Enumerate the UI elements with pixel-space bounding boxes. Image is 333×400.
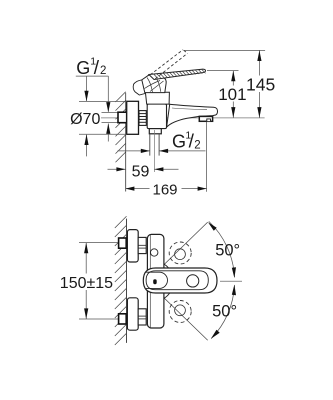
dim Ø70 <box>70 101 127 134</box>
svg-text:50°: 50° <box>215 241 240 259</box>
wall (bottom view) <box>126 219 128 343</box>
dim 169 <box>125 122 206 192</box>
dim G1/2 top-left label <box>76 55 109 79</box>
lower union nut <box>138 309 146 325</box>
swing arc lower with arrows <box>211 285 234 338</box>
dim 150±15 ext lines <box>79 243 126 319</box>
inlet pipe lines behind wall <box>102 113 119 123</box>
valve body (side) <box>147 104 166 129</box>
lower supply elbow (bold, behind wall) <box>119 314 127 324</box>
handle neck/hub cap <box>146 272 167 288</box>
dome circle behind body <box>150 261 173 302</box>
lever (solid position) <box>149 69 206 79</box>
dim 101 <box>207 71 239 118</box>
inlet pipe (bold, behind wall) <box>118 112 127 123</box>
svg-text:145: 145 <box>246 75 275 95</box>
finger hole <box>187 275 199 287</box>
shower outlet pipe lines <box>150 134 159 156</box>
centerline right of handle <box>220 280 242 282</box>
swing arc upper with arrows <box>209 221 235 277</box>
escutcheon flange (side) <box>127 101 139 134</box>
50° swing rays <box>158 222 208 340</box>
upper housing (cartridge) <box>145 92 169 104</box>
lower S-union escutcheon <box>127 298 138 330</box>
svg-text:50°: 50° <box>212 303 237 321</box>
dim 150±15 <box>84 243 88 319</box>
svg-text:101: 101 <box>218 85 246 104</box>
lever hub <box>133 74 166 95</box>
centerline (faucet axis, top view) <box>101 117 265 119</box>
dim 59 <box>108 167 179 171</box>
svg-text:59: 59 <box>132 163 150 180</box>
dashed knob circle upper <box>169 242 191 264</box>
dim G1/2 middle label <box>118 129 206 153</box>
connection nut <box>139 111 146 126</box>
wall (top view) <box>125 93 127 192</box>
wall hatching (top view) <box>116 92 126 162</box>
svg-text:2: 2 <box>194 140 200 152</box>
Ø70 bottom arrow <box>84 134 88 156</box>
svg-text:G: G <box>172 132 186 152</box>
svg-text:2: 2 <box>100 65 106 77</box>
faucet body (plan) <box>147 234 164 328</box>
dashed knob circle lower <box>169 301 191 323</box>
svg-text:Ø70: Ø70 <box>70 111 100 128</box>
svg-text:169: 169 <box>153 182 178 199</box>
svg-text:G: G <box>76 58 90 78</box>
lever raised (dashed phantom) <box>150 50 187 79</box>
aerator <box>199 116 212 121</box>
handle inner top surface <box>146 271 208 290</box>
svg-text:150±15: 150±15 <box>60 275 113 292</box>
upper supply elbow (bold, behind wall) <box>119 238 127 248</box>
dim G1/2 TL leader arrow 1 / Ø70 top arrow <box>84 76 88 101</box>
wall hatching (bottom view) <box>115 216 127 345</box>
handle (plan) outer <box>143 268 217 293</box>
upper union nut <box>138 237 146 253</box>
shower outlet centerline <box>153 130 155 172</box>
knob hole circle lower <box>175 305 186 316</box>
spout <box>167 104 218 127</box>
shower outlet below body <box>149 129 161 134</box>
dim G1/2 TL leader arrow 2 / thread arrows <box>106 76 110 141</box>
dim 145 <box>184 50 266 117</box>
indicator dash (black) <box>153 279 157 284</box>
body panel line <box>149 235 151 328</box>
indicator circle <box>151 249 158 256</box>
knob hole circle upper <box>175 249 186 260</box>
upper S-union escutcheon <box>127 230 138 262</box>
